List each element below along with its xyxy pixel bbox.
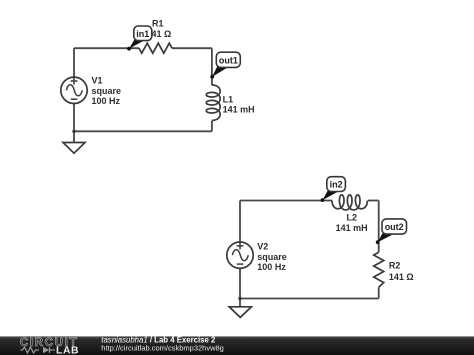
svg-text:141 Ω: 141 Ω (389, 272, 414, 282)
svg-text:square: square (257, 252, 287, 262)
svg-text:141 mH: 141 mH (336, 223, 368, 233)
svg-text:http://circuitlab.com/cskbmp32: http://circuitlab.com/cskbmp32hvw8g (101, 343, 224, 352)
svg-text:out1: out1 (219, 55, 238, 65)
svg-text:square: square (92, 86, 122, 96)
svg-text:100 Hz: 100 Hz (92, 96, 121, 106)
svg-text:LAB: LAB (56, 345, 79, 355)
svg-text:R2: R2 (389, 261, 401, 271)
svg-text:R1: R1 (152, 19, 164, 29)
svg-text:100 Hz: 100 Hz (257, 262, 286, 272)
svg-text:V2: V2 (257, 242, 268, 252)
svg-text:141 mH: 141 mH (223, 105, 255, 115)
svg-text:L1: L1 (223, 95, 234, 105)
svg-text:in2: in2 (330, 180, 343, 190)
svg-text:V1: V1 (92, 76, 103, 86)
svg-text:in1: in1 (136, 29, 149, 39)
svg-text:L2: L2 (347, 212, 358, 222)
svg-text:out2: out2 (385, 222, 404, 232)
